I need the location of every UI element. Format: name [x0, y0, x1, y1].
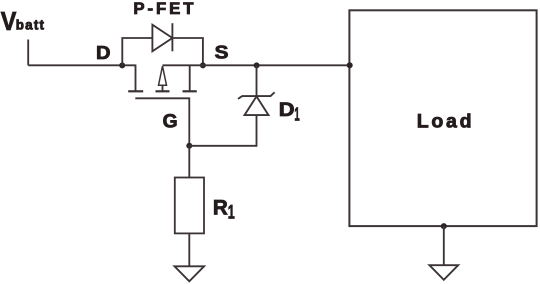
- transistor Q1 P-FET: [128, 65, 197, 146]
- node D1 top junction dot: [254, 62, 260, 68]
- wire body-diode loop right riser: [172, 38, 203, 65]
- svg-text:R: R: [213, 196, 228, 219]
- svg-text:D: D: [96, 43, 111, 64]
- svg-text:1: 1: [294, 104, 299, 124]
- ground (below Load): [429, 265, 458, 280]
- wire main rail left (Vbatt to Q1 drain): [28, 64, 135, 66]
- zener diode D1: [238, 92, 275, 115]
- svg-text:Load: Load: [417, 110, 474, 132]
- wire load to ground: [443, 226, 445, 265]
- node load left junction dot: [347, 62, 353, 68]
- wire D1 cathode to rail: [256, 65, 258, 96]
- node load bottom junction dot: [441, 223, 447, 229]
- wire gate node to R1: [188, 146, 190, 178]
- svg-text:V: V: [1, 8, 17, 36]
- label D1: [279, 99, 300, 124]
- wire main rail right (S to Load): [163, 64, 351, 66]
- ground (below R1): [175, 266, 205, 281]
- wire R1 to ground: [188, 233, 190, 265]
- svg-text:D: D: [279, 99, 295, 121]
- body arrow of Q1: [159, 66, 167, 85]
- svg-text:S: S: [215, 42, 229, 62]
- node gate junction dot: [186, 143, 192, 149]
- node S junction dot: [200, 62, 206, 68]
- svg-text:1: 1: [228, 203, 235, 224]
- load block: [349, 10, 536, 226]
- wire Vbatt stub: [27, 40, 29, 66]
- svg-text:batt: batt: [16, 18, 45, 33]
- resistor R1: [175, 178, 204, 234]
- body diode of P-FET: [152, 23, 172, 51]
- gate line of Q1: [135, 98, 189, 146]
- net label Vbatt: [1, 8, 45, 36]
- node D junction dot: [119, 62, 125, 68]
- drain stub of Q1: [135, 65, 137, 92]
- wire body-diode loop left riser: [122, 38, 152, 65]
- source stub of Q1: [189, 65, 191, 92]
- svg-text:G: G: [163, 111, 178, 132]
- wire gate node to D1 anode: [189, 115, 256, 146]
- svg-text:P-FET: P-FET: [133, 0, 196, 18]
- label R1: [213, 196, 235, 223]
